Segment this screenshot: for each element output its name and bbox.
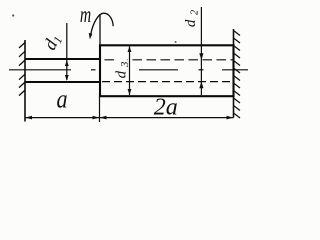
a arrowhead right [93, 116, 100, 120]
centerline (dash-dot axis) [9, 69, 248, 71]
svg-text:2a: 2a [154, 94, 178, 120]
d1 arrowhead up [65, 60, 69, 66]
2a arrowhead left [100, 116, 107, 120]
d2 dimension line [200, 7, 202, 95]
d1 dimension line [66, 23, 68, 80]
right wall hatching [234, 31, 241, 119]
speck on top edge [175, 41, 177, 43]
d3 dimension line [129, 46, 131, 95]
moment arrowhead [89, 33, 93, 39]
dimension line 2a [100, 117, 234, 119]
svg-text:a: a [56, 86, 67, 114]
moment arc [91, 13, 113, 34]
bore dashed line lower (d2 hole) [100, 81, 234, 83]
label a [56, 86, 67, 114]
a arrowhead left [25, 116, 32, 120]
d1 arrowhead down [65, 75, 69, 81]
left wall hatching [19, 43, 25, 96]
speck top-left [12, 14, 14, 16]
label d3 [114, 58, 132, 79]
svg-text:m: m [80, 2, 91, 28]
d3 arrowhead down [128, 89, 132, 95]
left shaft (small section, length a, dia d1) [25, 59, 100, 82]
bore dashed line upper (d2 hole) [100, 59, 234, 61]
label m [80, 2, 91, 28]
extension line below step [99, 96, 101, 122]
right shaft (large section, length 2a, dia d3) [100, 45, 234, 96]
label d1 [39, 31, 65, 54]
d2 arrowhead down (tip at upper bore line) [199, 53, 203, 60]
label d2 [183, 5, 201, 27]
2a arrowhead right [227, 116, 234, 120]
right wall line [233, 29, 235, 118]
left wall line [24, 40, 26, 122]
d2 arrowhead up (tip at lower bore line) [199, 81, 203, 88]
d3 arrowhead up [128, 46, 132, 52]
step extension line above shaft [99, 14, 101, 45]
dimension line a [25, 117, 100, 119]
